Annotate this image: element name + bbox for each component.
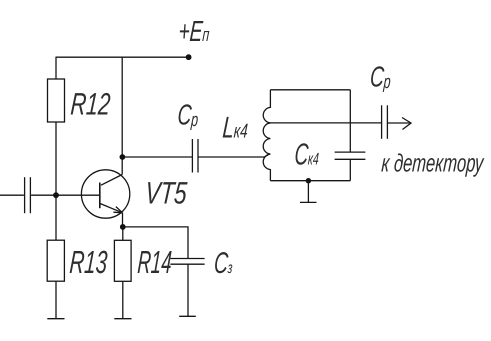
ground under R14 [114,318,131,320]
label VT5 [144,175,189,210]
svg-text:R13: R13 [69,244,109,280]
svg-text:Cз: Cз [213,247,234,280]
label +Eп [178,16,211,48]
wire collector to Cp [122,156,192,158]
label Cз [213,247,234,280]
svg-text:Cк4: Cк4 [294,138,321,172]
label Cp left [177,100,200,132]
svg-text:к детектору: к детектору [381,149,486,177]
arrow to detector [402,118,411,130]
ground tank [307,181,309,203]
capacitor input coupling [0,194,24,196]
resistor R14 [122,227,124,240]
node base junction [53,192,59,198]
wire tank top [270,89,350,91]
svg-text:Cр: Cр [369,62,392,94]
svg-text:+Eп: +Eп [178,16,211,48]
node +Ep terminal dot [186,54,192,60]
label R12 [69,87,111,122]
label Cк4 [294,138,321,172]
svg-text:Cр: Cр [177,100,200,132]
node emitter junction [120,224,126,230]
svg-text:Lк4: Lк4 [221,112,249,145]
ground under Cз [179,315,196,317]
wire tank bottom [270,180,350,182]
wire emitter to Cз [123,227,188,258]
node collector junction [120,154,126,160]
capacitor Cp left [191,139,193,173]
inductor Lк4 coil [263,90,270,181]
label Cp right [369,62,392,94]
svg-text:R14: R14 [137,244,173,281]
capacitor Cз [170,258,204,260]
wire collector to rail [121,57,123,174]
wire output tap [269,122,382,124]
resistor R13 [55,195,57,240]
wire top supply rail [56,56,189,58]
capacitor Ck4 [349,90,351,152]
ground under R13 [47,318,64,320]
label R13 [69,244,109,280]
label Lк4 [221,112,249,145]
label R14 [137,244,173,281]
svg-text:VT5: VT5 [144,175,189,210]
transistor VT5 [81,170,129,218]
capacitor Cp right [381,105,383,139]
resistor R12 [55,57,57,79]
node tank ground junction [306,178,311,183]
label к детектору [381,149,486,177]
svg-text:R12: R12 [69,87,111,122]
